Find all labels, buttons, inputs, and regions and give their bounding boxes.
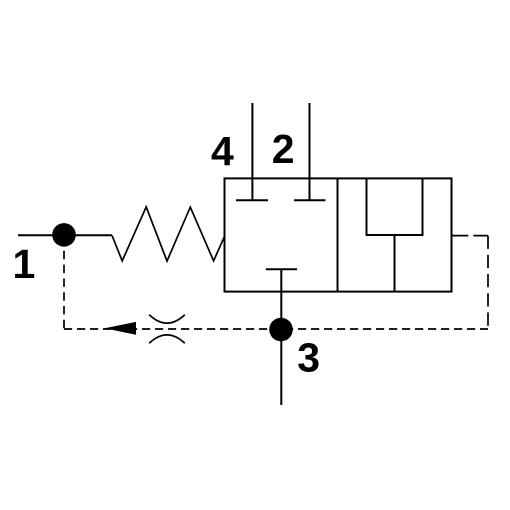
node 3 junction <box>269 318 293 342</box>
pilot dashed stub from body right <box>452 235 488 237</box>
flow arrow <box>105 322 136 335</box>
port 4 closed T-bar <box>236 199 268 201</box>
svg-text:1: 1 <box>13 241 36 287</box>
orifice top arc <box>149 315 185 323</box>
wire port 2 <box>309 103 311 200</box>
valve body outline <box>225 178 452 291</box>
svg-text:4: 4 <box>211 128 234 174</box>
pilot dashed wire right vertical <box>487 236 489 329</box>
pilot dashed wire from node 1 down and along bottom <box>63 251 65 329</box>
port 2 closed T-bar <box>294 199 326 201</box>
port 3 closed T-bar <box>266 268 297 270</box>
node 1 junction <box>52 223 76 247</box>
svg-text:3: 3 <box>297 334 320 380</box>
body divider <box>337 178 339 291</box>
spring <box>112 207 225 261</box>
wire port 3 vertical <box>280 269 282 405</box>
wire port 1 horizontal <box>18 234 112 236</box>
pilot inner box <box>367 178 423 235</box>
orifice bottom arc <box>149 335 185 343</box>
pilot drain wire <box>394 235 396 292</box>
wire port 4 <box>251 103 253 200</box>
svg-text:2: 2 <box>272 126 295 172</box>
wire dashed bottom horizontal <box>64 328 488 330</box>
